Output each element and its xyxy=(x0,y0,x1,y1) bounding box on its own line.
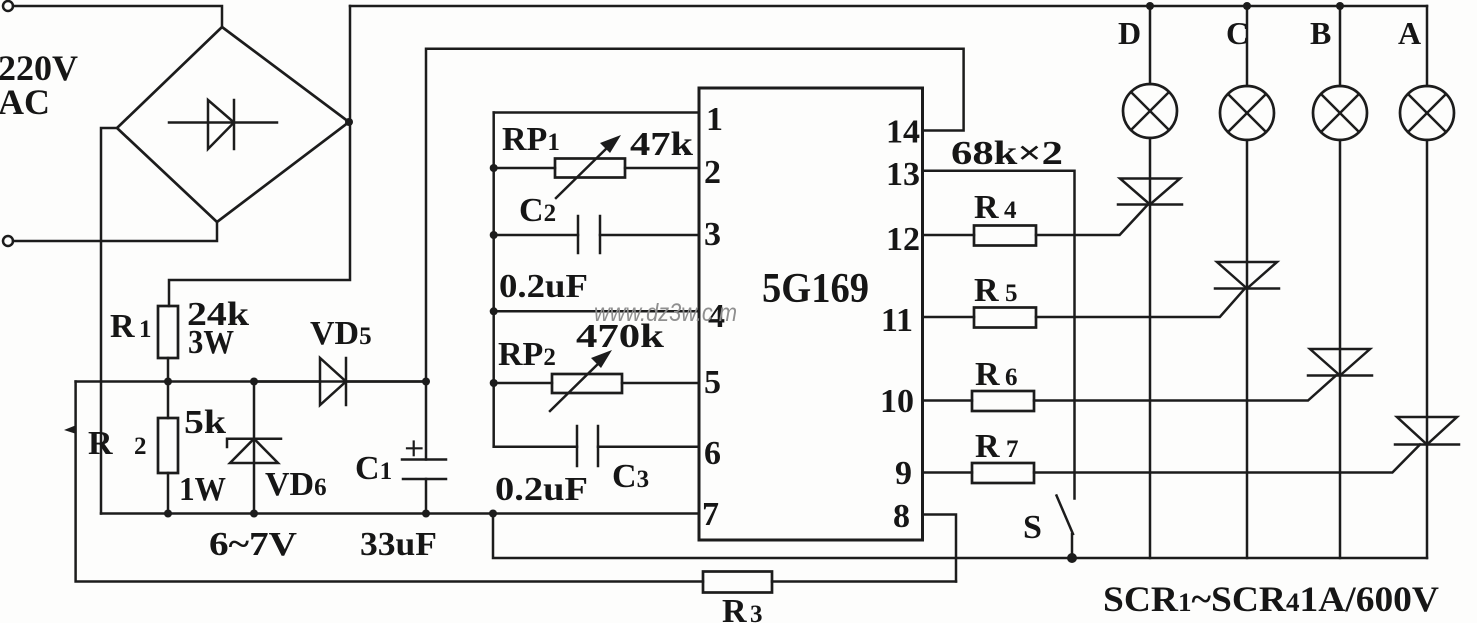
node RP1 left xyxy=(490,164,498,172)
node VD5 cathode / C1 top xyxy=(422,378,430,386)
svg-text:13: 13 xyxy=(886,156,920,193)
svg-text:C: C xyxy=(1226,15,1249,51)
wire pin 4 xyxy=(494,310,699,313)
terminal top AC input xyxy=(3,1,13,11)
svg-text:1W: 1W xyxy=(179,471,226,508)
svg-text:www.dz3w.c m: www.dz3w.c m xyxy=(594,299,737,327)
svg-text:3W: 3W xyxy=(188,324,234,361)
svg-text:6~7V: 6~7V xyxy=(209,526,298,563)
svg-text:2: 2 xyxy=(704,154,721,191)
svg-text:0.2uF: 0.2uF xyxy=(499,268,588,305)
svg-text:5G169: 5G169 xyxy=(762,266,869,312)
arrowhead on return wire xyxy=(64,425,77,434)
svg-text:A: A xyxy=(1398,15,1421,51)
wire bridge left vertex down to bottom bus xyxy=(101,128,117,514)
node VD6 bottom xyxy=(250,510,258,518)
thyristor SCR3 xyxy=(1308,349,1372,558)
IC U1 5G169 xyxy=(699,88,923,540)
svg-text:47k: 47k xyxy=(630,126,693,163)
svg-text:B: B xyxy=(1310,15,1331,51)
svg-text:RP2: RP2 xyxy=(498,336,556,373)
svg-text:R5: R5 xyxy=(974,272,1018,309)
svg-text:68k×2: 68k×2 xyxy=(951,135,1063,172)
resistor R5 and gate wire xyxy=(923,290,1245,328)
resistor R2 xyxy=(158,382,178,514)
lamp D xyxy=(1123,6,1177,205)
svg-text:R2: R2 xyxy=(88,425,147,462)
thyristor SCR2 xyxy=(1215,262,1279,558)
wire bridge right vertex riser and drop to R1 feed xyxy=(169,6,350,306)
wire bottom bus y=513.5 xyxy=(101,512,699,515)
lamp B xyxy=(1313,6,1367,376)
zener diode VD6 xyxy=(227,382,281,514)
left bias bus xyxy=(492,113,495,447)
svg-text:VD6: VD6 xyxy=(265,466,327,503)
svg-text:14: 14 xyxy=(886,114,920,151)
resistor R7 and gate wire xyxy=(923,445,1421,484)
capacitor C1 electrolytic xyxy=(402,382,446,514)
node C1 bottom xyxy=(422,510,430,518)
svg-text:VD5: VD5 xyxy=(310,315,372,352)
node VD6 top xyxy=(250,378,258,386)
svg-text:12: 12 xyxy=(886,221,920,258)
svg-text:C3: C3 xyxy=(612,458,649,495)
svg-text:R7: R7 xyxy=(975,428,1019,465)
node pin7 branch xyxy=(489,510,497,518)
thyristor SCR1 xyxy=(1118,179,1182,559)
node lamp C tap xyxy=(1243,2,1251,10)
switch S xyxy=(1057,496,1074,560)
left outer return wire xyxy=(76,382,703,582)
node lamp B tap xyxy=(1336,2,1344,10)
svg-text:RP1: RP1 xyxy=(502,121,560,158)
node C2 left xyxy=(490,231,498,239)
svg-text:R4: R4 xyxy=(974,189,1017,226)
svg-text:C1: C1 xyxy=(355,450,392,487)
svg-text:5: 5 xyxy=(704,364,721,401)
node bridge right vertex xyxy=(345,118,353,126)
wire top terminal to bridge top vertex xyxy=(13,6,222,27)
wire rectified node rail y=381.5 xyxy=(76,380,320,383)
wire VDD rail to pin14 xyxy=(426,49,964,382)
resistor R6 and gate wire xyxy=(923,376,1337,412)
svg-text:10: 10 xyxy=(880,383,914,420)
svg-text:33uF: 33uF xyxy=(360,526,437,563)
wire top supply rail xyxy=(350,5,1427,8)
bridge rectifier diamond xyxy=(117,27,349,222)
potentiometer RP2 xyxy=(494,350,699,411)
bridge internal diode xyxy=(169,100,277,149)
node lamp D tap xyxy=(1146,2,1154,10)
lamp C xyxy=(1220,6,1274,289)
svg-text:5k: 5k xyxy=(184,404,226,441)
wire pin8 stub and drop xyxy=(923,515,957,582)
node RP2 left xyxy=(490,379,498,387)
svg-text:0.2uF: 0.2uF xyxy=(495,471,588,508)
resistor R3 xyxy=(703,572,956,593)
wire bottom terminal to bridge bottom vertex xyxy=(13,222,217,241)
svg-text:11: 11 xyxy=(881,302,913,339)
svg-text:6: 6 xyxy=(704,435,721,472)
svg-text:3: 3 xyxy=(704,216,721,253)
node switch bottom xyxy=(1067,553,1077,563)
svg-text:S: S xyxy=(1023,509,1042,546)
wire pin7 to pin8 link xyxy=(493,514,1427,559)
svg-text:9: 9 xyxy=(895,455,912,492)
wire pin 1 xyxy=(494,111,699,114)
svg-text:R3: R3 xyxy=(722,593,763,623)
lamp A xyxy=(1400,6,1454,445)
svg-text:R1: R1 xyxy=(110,308,152,345)
svg-text:R6: R6 xyxy=(975,356,1018,393)
diode VD5 xyxy=(254,358,426,405)
node R1 bottom xyxy=(164,378,172,386)
capacitor C3 xyxy=(494,426,699,466)
C1 plus sign xyxy=(407,442,422,456)
thyristor SCR4 xyxy=(1395,417,1459,558)
node pin4 wire xyxy=(490,307,498,315)
capacitor C2 xyxy=(494,216,699,253)
wire pin 13 to switch xyxy=(923,171,1075,499)
svg-text:SCR1~SCR41A/600V: SCR1~SCR41A/600V xyxy=(1103,579,1439,619)
svg-text:AC: AC xyxy=(0,82,50,122)
resistor R1 xyxy=(158,306,178,382)
resistor R4 and gate wire xyxy=(923,206,1148,246)
svg-text:1: 1 xyxy=(706,101,723,138)
svg-text:C2: C2 xyxy=(519,192,556,229)
svg-text:7: 7 xyxy=(702,496,719,533)
node R2 bottom xyxy=(164,510,172,518)
svg-text:8: 8 xyxy=(893,498,910,535)
terminal bottom AC input xyxy=(3,236,13,246)
potentiometer RP1 xyxy=(494,135,699,198)
svg-text:D: D xyxy=(1118,15,1141,51)
